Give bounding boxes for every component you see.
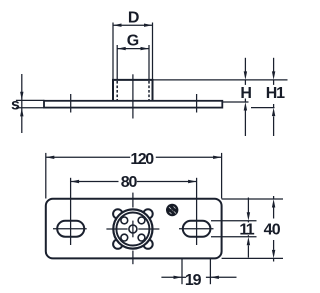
svg-text:H1: H1	[266, 85, 285, 102]
svg-text:120: 120	[130, 151, 154, 168]
svg-text:40: 40	[264, 222, 281, 239]
svg-text:G: G	[127, 32, 139, 49]
svg-text:D: D	[128, 10, 140, 27]
svg-text:19: 19	[185, 272, 202, 289]
svg-text:11: 11	[239, 221, 254, 238]
svg-text:H: H	[240, 85, 252, 102]
svg-text:80: 80	[121, 174, 138, 191]
svg-text:s: s	[11, 97, 20, 114]
